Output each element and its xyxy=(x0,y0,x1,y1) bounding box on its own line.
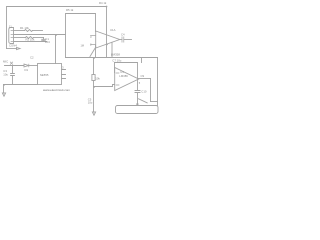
wire U2 pin drop xyxy=(55,35,57,64)
wire V+ drop to U1 xyxy=(106,7,108,58)
svg-text:R5 1k: R5 1k xyxy=(66,8,74,12)
node pot junction xyxy=(93,57,95,59)
node speaker junction xyxy=(136,103,138,105)
wire ground drop left xyxy=(3,85,5,93)
svg-text:J1: J1 xyxy=(9,24,12,28)
wire V+ drop U3 xyxy=(141,58,143,63)
svg-text:C4: C4 xyxy=(121,33,125,37)
svg-text:104: 104 xyxy=(45,40,50,44)
wire signal rail to right xyxy=(66,57,158,59)
wire bottom out xyxy=(151,101,158,103)
svg-text:NE555: NE555 xyxy=(40,73,49,77)
pot VR1 wire bottom xyxy=(93,81,95,112)
capacitor C10 xyxy=(135,91,140,93)
wire U2 pins right xyxy=(62,70,66,79)
svg-text:5: 5 xyxy=(139,82,141,85)
wire J1 pin4 xyxy=(14,41,47,43)
connector J1 pins xyxy=(11,31,13,42)
node U1 vplus junction xyxy=(106,44,108,46)
wire feedback diagonal xyxy=(90,47,96,57)
wire after C4 xyxy=(124,39,132,41)
svg-text:10u: 10u xyxy=(3,72,8,76)
pot VR1 wire top xyxy=(93,58,95,75)
wire U1 feedback xyxy=(95,45,97,58)
wire mic input xyxy=(5,65,24,67)
wire output top drop xyxy=(150,79,152,102)
wire U1 vminus drop xyxy=(111,42,113,57)
wire bottom rail xyxy=(4,84,38,86)
svg-text:1M: 1M xyxy=(81,45,84,48)
diode D1 xyxy=(24,64,29,67)
wire ground stub under J1 xyxy=(7,48,17,50)
capacitor C4 output xyxy=(120,39,122,41)
svg-text:MIC: MIC xyxy=(3,59,8,63)
wire U3 plus input xyxy=(114,63,116,73)
connector J1 xyxy=(9,28,14,44)
node +9V junction xyxy=(106,6,108,8)
svg-text:10u: 10u xyxy=(88,100,93,104)
wire after R1 xyxy=(33,30,43,32)
svg-text:CON4: CON4 xyxy=(9,44,17,48)
IC U2 box xyxy=(38,64,62,85)
wire U3 top bypass xyxy=(115,63,138,91)
capacitor C1 xyxy=(43,38,45,40)
resistor R1 xyxy=(25,30,33,32)
capacitor C3 xyxy=(12,66,14,74)
wire second rail xyxy=(66,14,96,58)
wire after R2 xyxy=(34,37,44,39)
wire speaker drop xyxy=(137,93,139,104)
node junction pin2 xyxy=(55,34,57,36)
svg-text:LM386: LM386 xyxy=(119,74,128,78)
svg-text:R2 10k: R2 10k xyxy=(26,38,35,42)
svg-text:C2: C2 xyxy=(30,55,34,59)
svg-text:C10: C10 xyxy=(141,90,147,94)
svg-text:C9: C9 xyxy=(141,74,145,78)
svg-text:C7 10u: C7 10u xyxy=(112,58,121,62)
U1 input stubs xyxy=(91,36,96,45)
svg-text:LM358: LM358 xyxy=(111,52,121,56)
wire J1 pin1 xyxy=(14,30,25,32)
node bottom rail left xyxy=(3,84,5,86)
U3 input stubs xyxy=(116,73,119,85)
node VR1 wiper junction xyxy=(93,86,95,88)
wire speaker diagonal xyxy=(139,99,148,103)
svg-text:10k: 10k xyxy=(95,76,100,80)
resistor R2 xyxy=(26,37,34,39)
svg-text:U1A: U1A xyxy=(110,28,116,32)
wire wiper to U3 xyxy=(94,85,115,87)
wire top +9V rail xyxy=(7,7,107,49)
node mic terminal xyxy=(10,62,12,64)
svg-text:R1 10k: R1 10k xyxy=(20,26,29,30)
ground arrow left xyxy=(2,93,5,96)
wire right drop xyxy=(157,58,159,106)
pot VR1 body xyxy=(92,75,95,81)
ground arrow under J1 xyxy=(17,47,21,49)
ground arrow pot xyxy=(92,112,95,115)
svg-text:R4 1k: R4 1k xyxy=(99,1,107,5)
speaker box xyxy=(116,106,159,114)
wire after D1 xyxy=(29,65,38,67)
svg-text:www.eleccircuit.com: www.eleccircuit.com xyxy=(43,88,71,92)
svg-text:D1: D1 xyxy=(25,68,29,72)
op-amp U3 xyxy=(115,68,139,91)
wire J1 pin3 xyxy=(14,37,26,39)
op-amp U1 xyxy=(96,31,120,48)
wire U3 output xyxy=(139,78,151,80)
wire J1 pin2 xyxy=(14,34,66,36)
